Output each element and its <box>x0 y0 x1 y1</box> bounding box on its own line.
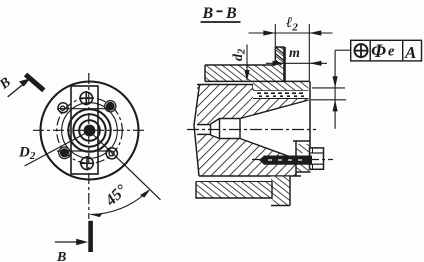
screw top <box>79 91 93 105</box>
leader D2 <box>25 134 86 167</box>
bottom hub bottom edge <box>271 205 290 207</box>
spindle top surface <box>197 84 253 86</box>
hole top-left <box>58 103 68 113</box>
washer face / hub right edge <box>289 176 291 206</box>
bolt axis centerline <box>252 159 333 161</box>
leader down arrow <box>333 76 338 88</box>
pin left edge <box>274 47 276 65</box>
dim l2 arrows <box>263 30 275 35</box>
pin top <box>275 46 284 48</box>
thread OD line <box>253 89 309 91</box>
d2 leader <box>246 45 248 81</box>
rim inner / step surface <box>205 80 310 82</box>
dim m arrows <box>273 61 285 66</box>
small cone top <box>211 119 220 125</box>
dim l2 line <box>249 32 333 34</box>
svg-text:A: A <box>404 43 416 62</box>
spindle left face <box>194 85 200 177</box>
dim l2 extension lines <box>274 24 276 47</box>
small cone bottom <box>211 135 220 139</box>
thread dashes <box>257 92 306 94</box>
bore cylinder top <box>220 118 241 120</box>
section arrow B bottom <box>55 239 88 245</box>
bottom rim outline <box>196 182 272 199</box>
bolt pocket top <box>293 140 311 142</box>
flange bottom hub hatched <box>271 177 290 206</box>
dim m line <box>266 62 285 64</box>
bore cone top line <box>240 100 309 119</box>
hole bottom-left (filled) <box>59 147 71 159</box>
flange bottom rim hatched <box>196 182 272 199</box>
svg-text:45°: 45° <box>102 181 131 210</box>
position symbol <box>355 44 368 57</box>
bolt head <box>310 148 324 169</box>
drawbar tail top <box>197 124 211 126</box>
rim left face <box>204 65 206 81</box>
drawbar tail bottom <box>197 133 211 135</box>
outer circle <box>41 82 139 180</box>
bore cylinder bottom <box>220 138 241 140</box>
spindle body hatched upper <box>197 85 309 125</box>
slot line lower <box>57 150 112 152</box>
ring r28 <box>62 103 118 159</box>
svg-text:D2: D2 <box>18 145 36 163</box>
taper bottom line <box>240 139 294 159</box>
ring r10 <box>79 120 100 141</box>
bolt circle (dash-dot) <box>57 98 123 164</box>
rim top edge <box>205 64 275 66</box>
svg-text:ℓ2: ℓ2 <box>286 15 298 34</box>
small cone base <box>210 124 212 135</box>
flange right face <box>309 81 311 147</box>
thread root line <box>253 98 309 100</box>
svg-text:m: m <box>289 46 300 61</box>
ring r21 <box>68 109 110 151</box>
flange rim hatched <box>205 65 285 81</box>
svg-text:Φ: Φ <box>371 41 386 62</box>
arc 45deg <box>90 191 148 215</box>
bolt pocket face <box>295 141 297 176</box>
center boss <box>84 125 94 135</box>
pin hatched <box>275 47 284 65</box>
pin right edge thick <box>283 47 286 81</box>
line 45deg <box>92 134 161 200</box>
section arrow B top <box>8 78 31 97</box>
spindle bottom edge <box>199 175 301 177</box>
arrow arc right <box>140 189 151 198</box>
bolt pocket bottom <box>296 171 311 173</box>
spindle body hatched lower <box>197 134 296 176</box>
slot rectangle <box>71 86 98 174</box>
tolerance leader vertical <box>334 50 336 129</box>
screw bottom <box>80 156 94 170</box>
svg-text:B: B <box>225 5 237 22</box>
leader up arrow <box>333 100 338 112</box>
section mark B top (thick bar) <box>26 75 44 91</box>
bolt shank dark band <box>259 156 312 165</box>
svg-text:B: B <box>56 250 66 262</box>
bore cylinder right face <box>239 119 241 139</box>
tolerance frame <box>351 40 422 61</box>
arrow arc left <box>90 213 102 217</box>
svg-text:d2: d2 <box>231 48 248 61</box>
svg-text:B: B <box>0 75 14 93</box>
surface tick upper <box>312 87 345 89</box>
svg-text:B: B <box>202 5 214 22</box>
slot line upper <box>57 108 112 110</box>
horizontal centerline <box>33 129 146 131</box>
surface tick lower <box>311 99 346 101</box>
ring r16 <box>73 114 105 146</box>
flange around bolt hatched <box>296 144 310 153</box>
tolerance leader horizontal <box>335 49 351 51</box>
section axis centerline <box>187 129 316 131</box>
spindle step <box>252 85 254 91</box>
section mark B bottom (thick bar) <box>88 221 93 252</box>
hole top-right (filled) <box>105 101 116 112</box>
vertical centerline <box>88 73 90 219</box>
flange hub hatched <box>253 81 309 90</box>
hole bottom-right <box>106 148 117 159</box>
svg-text:e: e <box>388 44 395 60</box>
bore cylinder left face <box>219 119 221 139</box>
